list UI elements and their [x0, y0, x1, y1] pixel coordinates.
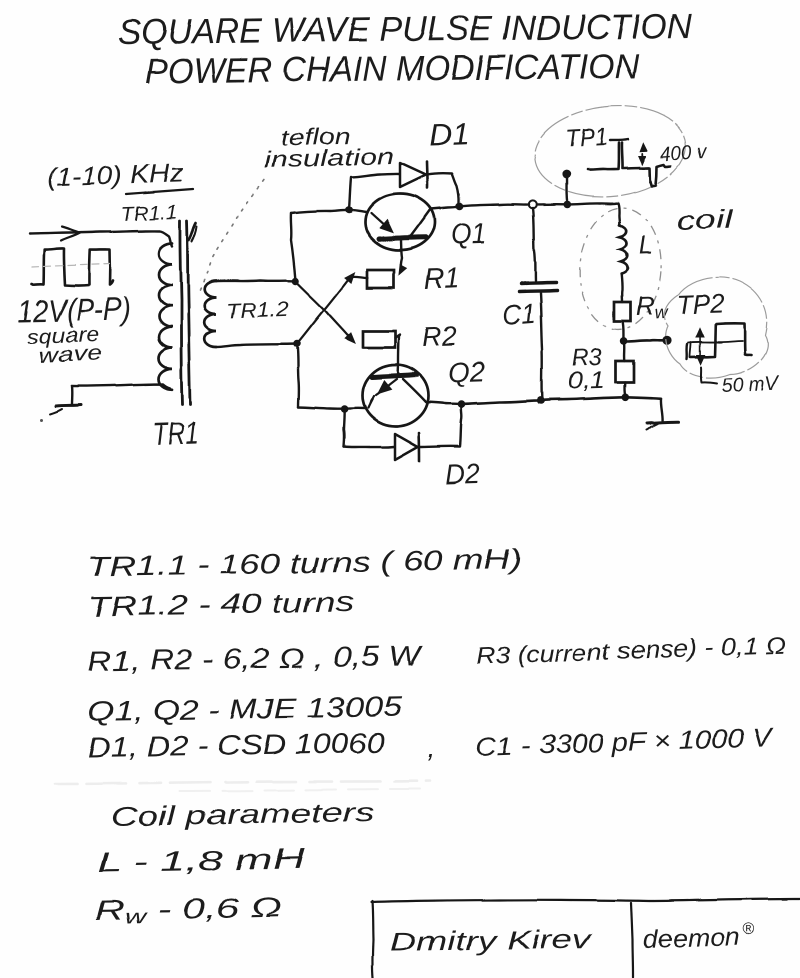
wire C1 top	[533, 208, 536, 281]
node G (TP2 tap)	[620, 337, 628, 345]
Q1 collector stroke	[410, 209, 431, 238]
TP1 pencil ellipse	[530, 99, 691, 204]
ring node C1 tap	[529, 200, 537, 208]
TP1 waveform	[587, 143, 619, 170]
table top line	[371, 899, 800, 902]
wire D1 left branch	[349, 173, 399, 210]
transformer core line 2	[187, 221, 190, 404]
node C1 bottom	[537, 397, 545, 405]
svg-text:TR1: TR1	[151, 414, 199, 452]
Q1 emitter wire to R1	[401, 240, 402, 269]
wire R2 right hook to Q2 base	[396, 335, 401, 376]
svg-text:TR1.1: TR1.1	[120, 202, 178, 226]
svg-text:L: L	[638, 230, 653, 260]
pencil dotted leader to teflon label	[200, 177, 266, 290]
svg-text:deemon: deemon	[642, 923, 740, 954]
wire C1 bottom	[540, 293, 542, 399]
node B	[293, 340, 301, 348]
TP2 pencil blob	[664, 277, 768, 378]
svg-text:POWER CHAIN MODIFICATION: POWER CHAIN MODIFICATION	[145, 47, 640, 91]
svg-text:coil: coil	[676, 204, 735, 236]
svg-text:Q1: Q1	[450, 218, 486, 251]
TP2 up-down arrow	[699, 331, 701, 361]
wire D2 left horizontal	[344, 446, 394, 449]
diode D2	[395, 434, 418, 460]
Q2 collector stroke	[403, 379, 426, 402]
ground right	[661, 399, 663, 421]
svg-text:D1: D1	[428, 118, 470, 152]
wire R3 to node H	[623, 382, 626, 396]
table left line	[372, 901, 373, 978]
wire D2 right up to node F	[419, 406, 462, 447]
transformer TR1 primary winding TR1.1	[159, 243, 173, 389]
Q1 base bar	[379, 238, 426, 240]
svg-text:0,1: 0,1	[567, 367, 605, 395]
transformer core line 1	[180, 221, 182, 404]
wire node A up to Q1 base rail	[291, 213, 296, 281]
node C (D1 tap)	[345, 206, 353, 214]
svg-text:TP1: TP1	[565, 123, 608, 153]
svg-text:C1: C1	[501, 298, 536, 331]
wire R1 left stub	[352, 276, 368, 277]
node TP1 tap	[563, 201, 571, 209]
TP2 probe wire	[627, 340, 663, 341]
wire cross diagonal node A to R2	[296, 281, 353, 340]
svg-text:R1, R2 - 6,2 Ω , 0,5 W: R1, R2 - 6,2 Ω , 0,5 W	[88, 640, 425, 677]
svg-text:TP2: TP2	[676, 288, 725, 320]
svg-text:400 v: 400 v	[660, 141, 708, 166]
svg-text:®: ®	[743, 921, 755, 938]
C1 plate bottom	[519, 291, 557, 292]
underline under KHz	[126, 189, 193, 194]
transistor Q2 body	[363, 365, 429, 427]
svg-text:,: ,	[428, 732, 436, 763]
TP1 probe stub	[565, 178, 568, 200]
wire Q2 emitter rail	[299, 407, 366, 409]
wire input bottom	[72, 384, 170, 404]
node E	[341, 405, 349, 413]
svg-text:D2: D2	[445, 458, 480, 490]
svg-text:D1, D2 - CSD 10060: D1, D2 - CSD 10060	[88, 727, 386, 763]
svg-text:(1-10) KHz: (1-10) KHz	[46, 157, 184, 192]
transformer secondary winding TR1.2	[204, 281, 216, 347]
svg-text:wave: wave	[38, 342, 103, 368]
resistor R1	[368, 270, 395, 288]
node R3 bottom	[622, 394, 630, 402]
svg-text:R1: R1	[423, 263, 460, 296]
wire Q1 base rail	[291, 210, 366, 213]
svg-text:TR1.2 - 40 turns: TR1.2 - 40 turns	[88, 586, 355, 622]
wire top rail	[460, 204, 530, 206]
transistor Q1 body	[365, 194, 435, 251]
wire node B down to Q2 emitter rail	[297, 344, 299, 407]
node D	[456, 203, 464, 211]
wire Rw to node G	[623, 321, 624, 339]
svg-text:L - 1,8 mH: L - 1,8 mH	[97, 843, 307, 878]
svg-text:insulation: insulation	[263, 142, 395, 173]
coil dashed pencil ellipse	[576, 205, 666, 332]
svg-text:12V(P-P): 12V(P-P)	[17, 291, 131, 329]
stray dot	[41, 419, 44, 422]
wire D1 right branch down to node D	[427, 173, 459, 203]
resistor R2	[363, 331, 396, 348]
table divider	[631, 903, 633, 978]
wire bottom rail	[462, 397, 662, 404]
wire node G to R3	[623, 341, 626, 361]
ground left	[56, 405, 81, 406]
node A	[292, 277, 300, 285]
svg-text:Dmitry Kirev: Dmitry Kirev	[390, 923, 594, 957]
C1 plate top	[521, 283, 556, 284]
svg-text:Q2: Q2	[447, 356, 485, 388]
svg-text:SQUARE WAVE PULSE INDUCTION: SQUARE WAVE PULSE INDUCTION	[118, 7, 693, 52]
wire cross diagonal node B to R1	[297, 275, 352, 344]
node F	[458, 400, 466, 408]
wire input top with arrow	[30, 231, 172, 246]
core top scribble	[189, 223, 196, 240]
inductor L winding	[620, 225, 628, 274]
svg-text:50 mV: 50 mV	[721, 372, 781, 397]
wire secondary top to node A	[216, 279, 296, 282]
smudge streaks	[55, 781, 430, 784]
Q2 emitter arrow	[376, 379, 397, 395]
TP2 waveform	[685, 344, 688, 359]
svg-text:Q1, Q2 - MJE 13005: Q1, Q2 - MJE 13005	[88, 691, 403, 727]
svg-text:R2: R2	[422, 321, 457, 352]
TP1 up-down arrow	[641, 147, 644, 161]
wire secondary bottom to node B	[216, 344, 297, 347]
resistor Rw	[614, 302, 631, 321]
svg-text:TR1.2: TR1.2	[225, 298, 289, 323]
square wave symbol	[32, 249, 113, 286]
Q2 base bar	[372, 375, 417, 378]
pencil midline of square wave	[32, 264, 110, 267]
wire L to Rw	[620, 274, 623, 302]
resistor R3	[616, 361, 634, 382]
diode D1	[400, 163, 426, 188]
svg-text:Coil parameters: Coil parameters	[111, 797, 374, 832]
wire node E down to D2	[343, 409, 346, 447]
wire to 50 mV label	[701, 367, 717, 384]
Q1 emitter arrow	[371, 213, 391, 231]
